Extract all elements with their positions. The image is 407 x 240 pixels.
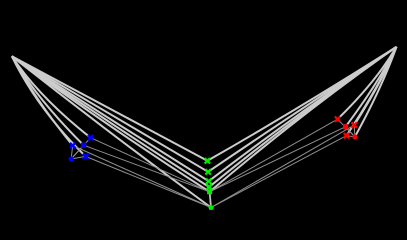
wire R-R4 (346, 47, 396, 136)
wire B4-B3 (71, 145, 84, 159)
wire R-R2 (346, 47, 397, 127)
node R4 (344, 133, 349, 138)
wire R-G3 (209, 47, 397, 181)
wire L-B3 (12, 56, 84, 145)
wire R-R3 (354, 47, 396, 125)
wire R2-G5 (210, 127, 346, 192)
wire B4-B5 (71, 156, 86, 159)
node G3b (206, 184, 211, 189)
wire R-G1 (207, 47, 396, 161)
wire R-G2 (208, 47, 396, 172)
node G5 (208, 205, 214, 210)
node B4 (69, 156, 74, 161)
wire L-B1 (12, 56, 91, 138)
node G4 (207, 189, 212, 194)
wire R5-R4 (346, 136, 355, 137)
wire L-G4 (12, 56, 209, 187)
wire R5-R2 (346, 127, 355, 137)
wire R-R5 (355, 47, 397, 137)
node G1 (205, 158, 210, 163)
node R3 (352, 122, 357, 127)
wire L-B2 (12, 56, 73, 145)
node R5 (352, 134, 357, 139)
node B3 (81, 143, 86, 148)
wire L-G1 (12, 56, 208, 161)
node R2 (343, 124, 348, 129)
node B1 (88, 135, 93, 140)
wire R5-R3 (353, 125, 356, 137)
wire R4-G6 (211, 136, 346, 208)
wire B4-B2 (71, 146, 73, 160)
node B5 (83, 154, 88, 159)
wire L-G6 (12, 56, 211, 207)
node G3 (206, 179, 211, 184)
wire L-G2 (12, 56, 208, 172)
wire R5-R1 (338, 119, 355, 137)
wire R-R1 (338, 47, 397, 119)
wire G5-G4 (210, 192, 211, 208)
node R1 (335, 117, 340, 122)
wire B1-G5 (91, 138, 210, 192)
wire B5-G6 (86, 156, 211, 207)
wire R-G5 (210, 47, 397, 192)
wire L-B5 (12, 56, 86, 156)
node G2 (205, 169, 210, 174)
wire B2-G6 (73, 146, 211, 208)
wire L-G5 (12, 56, 210, 192)
node B2 (70, 143, 75, 148)
wire L-G3 (12, 56, 209, 181)
wire R3-G6 (211, 125, 354, 207)
wire R-G4 (209, 47, 396, 187)
wire B4-B1 (71, 138, 91, 159)
wire B3-G5 (84, 145, 210, 192)
wire R1-G5 (210, 119, 338, 192)
